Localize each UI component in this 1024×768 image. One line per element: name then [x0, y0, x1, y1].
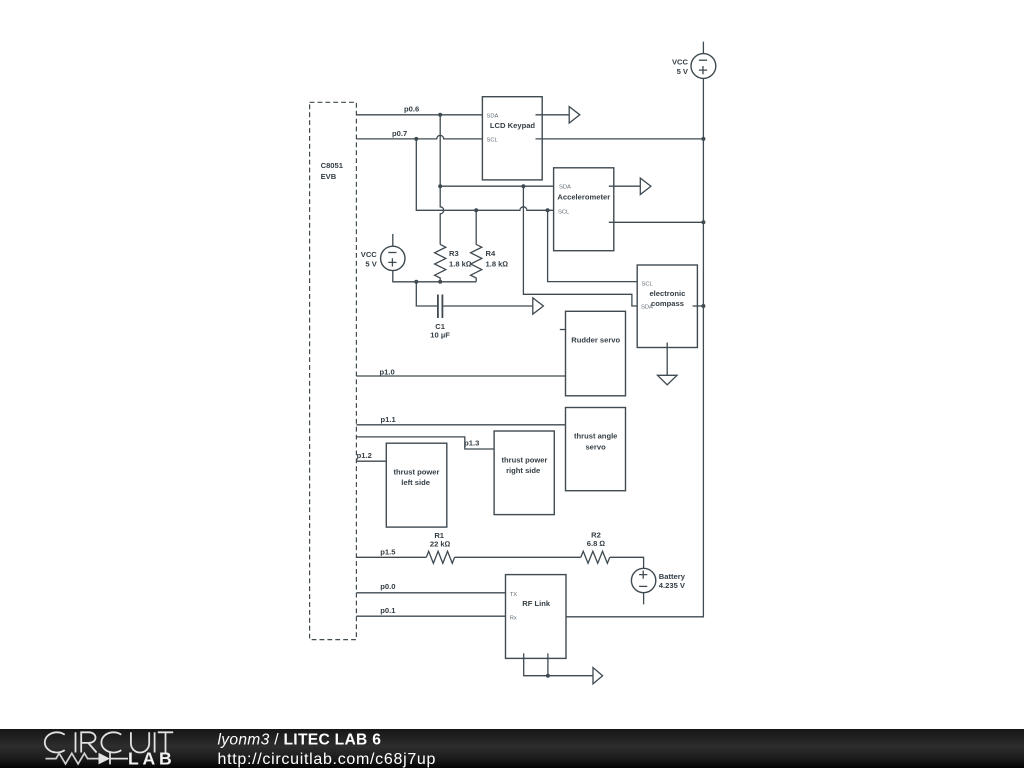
svg-text:5 V: 5 V — [677, 67, 689, 76]
wire Accelerometer SDA output — [609, 185, 641, 187]
thrust power right side block — [494, 431, 554, 515]
wire p0.7 to LCD SCL (hop over vertical) — [356, 135, 487, 139]
svg-text:p1.3: p1.3 — [464, 438, 479, 447]
svg-text:p0.1: p0.1 — [380, 606, 396, 615]
svg-text:1.8 kΩ: 1.8 kΩ — [486, 259, 509, 268]
resistor R1 22k — [426, 531, 454, 564]
junction dot C1 branch — [414, 280, 418, 284]
wire LCD SDA output — [536, 114, 570, 116]
thrust power left side block — [386, 443, 447, 527]
wire p1.5 — [356, 556, 426, 558]
C8051 EVB dashed block — [310, 102, 357, 639]
wire LCD right pin to VCC rail — [536, 138, 704, 140]
svg-text:TX: TX — [510, 592, 518, 598]
junction dot SCL/R4 — [474, 208, 478, 212]
junction dot SDA/p0.6 vertical — [438, 184, 442, 188]
svg-text:p1.2: p1.2 — [357, 451, 372, 460]
probe arrow at LCD output — [569, 107, 580, 123]
wire compass ground pin — [666, 343, 668, 376]
svg-text:p0.0: p0.0 — [380, 582, 395, 591]
junction dot on rail at y306 — [701, 304, 705, 308]
svg-text:right side: right side — [506, 466, 540, 475]
voltage source VCC 5V (top right) — [672, 42, 716, 79]
wire SDA bus to Accelerometer — [440, 185, 558, 187]
svg-text:SDA: SDA — [559, 185, 571, 191]
svg-text:R3: R3 — [449, 249, 459, 258]
svg-text:thrust angle: thrust angle — [574, 432, 617, 441]
svg-text:http://circuitlab.com/c68j7up: http://circuitlab.com/c68j7up — [218, 751, 437, 768]
probe arrow at Accelerometer output — [640, 178, 651, 194]
wire VCC source to R3/R4 bottoms — [393, 271, 476, 282]
svg-text:left side: left side — [401, 478, 430, 487]
junction dot p0.7 branch — [414, 137, 418, 141]
svg-text:10 µF: 10 µF — [430, 331, 450, 340]
CircuitLab logo resistor-diode squiggle — [46, 753, 129, 765]
rudder servo stub pin — [560, 329, 566, 331]
LCD Keypad U-block — [482, 97, 542, 180]
probe arrow at RF output — [593, 668, 603, 684]
junction dot on rail at y139 — [701, 137, 705, 141]
svg-text:SCL: SCL — [487, 138, 499, 144]
ground symbol — [658, 375, 678, 385]
junction dot on rail at y222 — [701, 220, 705, 224]
resistor R2 6.8 — [581, 530, 610, 563]
wire SCL bus to Accelerometer (hop over SDA vertical) — [416, 139, 558, 210]
svg-text:Battery: Battery — [659, 572, 686, 581]
svg-text:SDA: SDA — [487, 114, 499, 120]
svg-text:p0.7: p0.7 — [392, 129, 407, 138]
svg-text:RF Link: RF Link — [522, 599, 551, 608]
svg-text:22 kΩ: 22 kΩ — [430, 540, 451, 549]
svg-text:Accelerometer: Accelerometer — [557, 192, 610, 201]
Rudder servo block — [566, 311, 626, 396]
svg-text:lyonm3 / LITEC LAB 6: lyonm3 / LITEC LAB 6 — [218, 732, 382, 749]
wire down to capacitor C1 — [416, 282, 437, 306]
resistor R3 1.8k — [435, 244, 472, 281]
svg-text:VCC: VCC — [672, 57, 689, 66]
svg-text:p0.6: p0.6 — [404, 104, 419, 113]
svg-text:5 V: 5 V — [365, 259, 377, 268]
wire p1.3 to thrust power right side — [356, 437, 494, 449]
RF Link bottom pins wire — [524, 653, 593, 675]
junction dot SCL/compass branch — [546, 208, 550, 212]
svg-text:servo: servo — [585, 442, 606, 451]
junction dot SDA/compass branch — [521, 184, 525, 188]
svg-text:p1.5: p1.5 — [380, 547, 396, 556]
svg-text:EVB: EVB — [321, 172, 337, 181]
wire C1 output — [443, 305, 533, 307]
svg-text:SCL: SCL — [558, 210, 570, 216]
svg-text:p1.0: p1.0 — [380, 367, 395, 376]
svg-text:LAB: LAB — [128, 749, 176, 768]
svg-text:6.8 Ω: 6.8 Ω — [587, 539, 606, 548]
junction dot RF bottom — [546, 674, 550, 678]
wire compass right pin to VCC rail — [693, 305, 704, 307]
svg-text:R2: R2 — [591, 530, 601, 539]
svg-text:Rx: Rx — [510, 615, 517, 621]
svg-text:Rudder servo: Rudder servo — [571, 336, 620, 345]
svg-text:R1: R1 — [434, 531, 444, 540]
svg-text:thrust power: thrust power — [394, 468, 440, 477]
junction dot R3 bottom — [438, 280, 442, 284]
svg-text:thrust power: thrust power — [502, 455, 548, 464]
svg-text:compass: compass — [651, 299, 684, 308]
wire R2 to Battery — [610, 557, 644, 568]
voltage source VCC 5V (left) — [361, 234, 405, 271]
wire p1.0 to Rudder servo — [356, 375, 565, 377]
svg-text:p1.1: p1.1 — [381, 415, 397, 424]
vertical wire p0.6 net down to R3 (hop over SCL wire) — [440, 115, 444, 245]
wire p0.1 to RF Link Rx — [356, 615, 510, 617]
svg-text:SCL: SCL — [642, 282, 654, 288]
svg-text:R4: R4 — [486, 249, 496, 258]
footer bar — [0, 729, 1024, 768]
svg-text:4.235 V: 4.235 V — [659, 581, 686, 590]
probe arrow at C1 output — [533, 298, 544, 314]
svg-text:VCC: VCC — [361, 250, 378, 259]
wire Accelerometer right pin to VCC rail — [609, 221, 704, 223]
battery source 4.235V — [631, 568, 686, 604]
VCC rail wire down to RF Link — [561, 78, 704, 616]
RF Link bottom pin 2 — [547, 653, 549, 675]
Accelerometer U-block — [554, 168, 614, 251]
svg-text:LCD Keypad: LCD Keypad — [490, 121, 536, 130]
CircuitLab logo CIRCUIT — [45, 732, 173, 752]
wire p1.1 to thrust angle servo — [356, 424, 565, 426]
wire p0.0 to RF Link TX — [356, 592, 510, 594]
svg-text:electronic: electronic — [649, 289, 685, 298]
capacitor C1 10uF — [430, 295, 450, 340]
wire SCL branch down to compass SCL — [548, 210, 643, 281]
resistor R4 1.8k — [471, 210, 509, 281]
wire R1 to R2 — [455, 556, 581, 558]
electronic compass U-block — [637, 265, 697, 348]
thrust angle servo block — [566, 408, 626, 491]
wire p1.2 to thrust power left side — [356, 460, 386, 462]
junction dot p0.6/vertical — [438, 113, 442, 117]
RF Link U-block — [506, 575, 567, 659]
svg-text:C8051: C8051 — [321, 161, 344, 170]
svg-text:1.8 kΩ: 1.8 kΩ — [449, 259, 472, 268]
wire p0.6 to LCD SDA — [356, 114, 487, 116]
wire SDA branch down to compass SDA — [523, 186, 642, 306]
